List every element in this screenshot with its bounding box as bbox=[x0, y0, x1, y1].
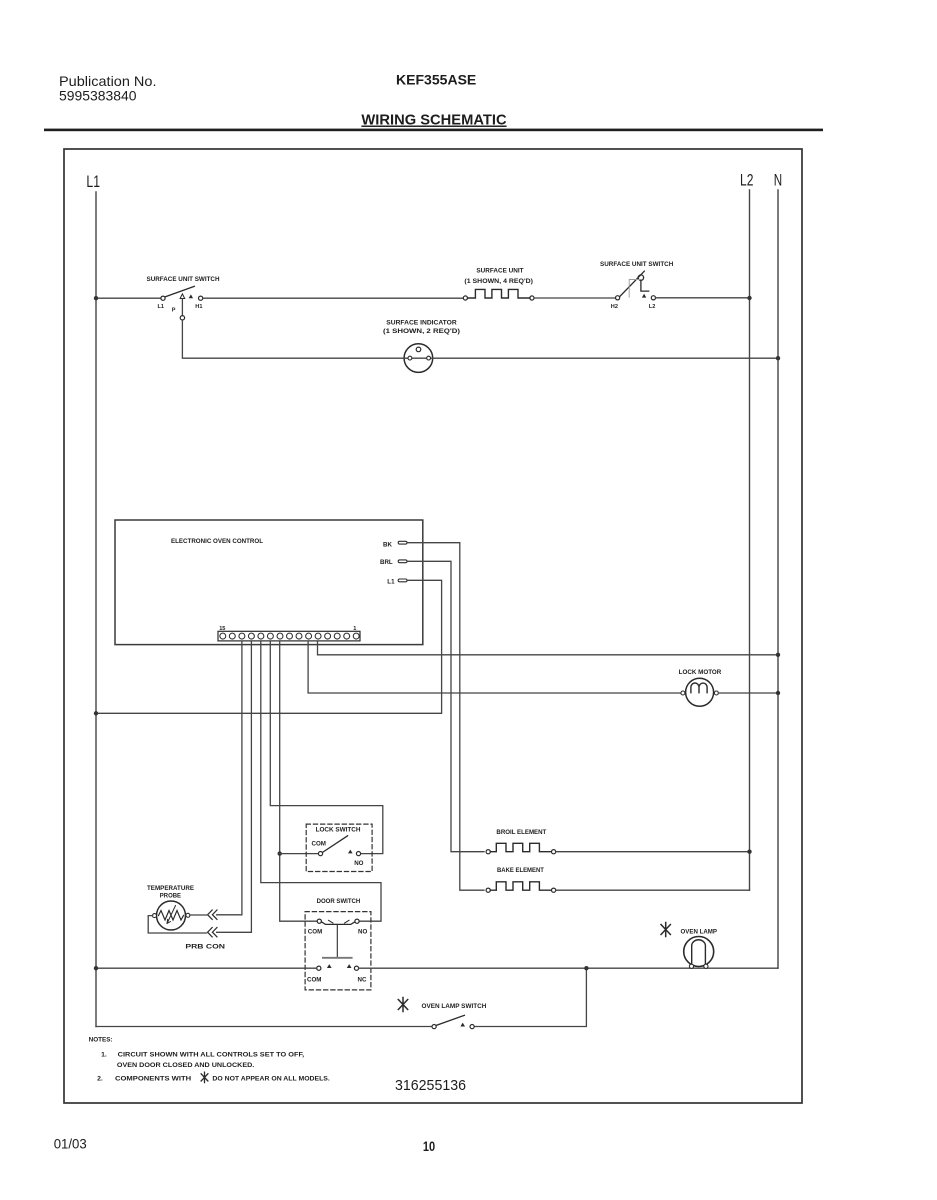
junction dot N/indicator row bbox=[776, 356, 780, 360]
switch SW1 contact H1 bbox=[199, 296, 203, 300]
switch lock arrow bbox=[348, 850, 353, 854]
wire pin13 to probe right lead bbox=[217, 642, 242, 915]
probe terminals bbox=[153, 914, 157, 918]
switch lock NO contact bbox=[356, 852, 360, 856]
svg-text:SURFACE UNIT SWITCH: SURFACE UNIT SWITCH bbox=[600, 261, 674, 268]
switch door upper NO contact bbox=[355, 919, 359, 923]
switch door lower NC contact bbox=[354, 966, 358, 970]
svg-text:1.: 1. bbox=[101, 1051, 107, 1058]
svg-text:WIRING SCHEMATIC: WIRING SCHEMATIC bbox=[361, 113, 507, 129]
junction dot L1 bus / L1 tab wire bbox=[94, 711, 98, 715]
svg-text:CIRCUIT SHOWN WITH ALL CONTROL: CIRCUIT SHOWN WITH ALL CONTROLS SET TO O… bbox=[118, 1051, 305, 1058]
svg-text:P: P bbox=[172, 308, 176, 314]
wire oven lamp switch loop bbox=[96, 968, 586, 1026]
wire P terminal to indicator row bbox=[182, 320, 404, 358]
svg-text:KEF355ASE: KEF355ASE bbox=[396, 72, 476, 88]
wire branch to lock switch COM bbox=[280, 853, 319, 855]
wire neutral bottom bus left segment bbox=[96, 967, 317, 969]
wire probe return lead bbox=[148, 916, 206, 933]
switch door lower COM contact bbox=[317, 966, 321, 970]
svg-text:H2: H2 bbox=[611, 304, 618, 310]
svg-text:PROBE: PROBE bbox=[160, 893, 181, 900]
junction dot N / lock motor bbox=[776, 691, 780, 695]
svg-text:OVEN DOOR CLOSED AND UNLOCKED.: OVEN DOOR CLOSED AND UNLOCKED. bbox=[117, 1062, 255, 1069]
switch SW1 P terminal bbox=[180, 316, 184, 320]
svg-text:L1: L1 bbox=[158, 304, 165, 310]
wire probe right lead to chevron bbox=[190, 914, 207, 916]
connector strip P1 bbox=[218, 631, 360, 641]
svg-text:NOTES:: NOTES: bbox=[89, 1036, 113, 1043]
wire N vertical bus bbox=[777, 190, 779, 968]
wire element to switch SW2 bbox=[534, 297, 616, 299]
svg-text:NO: NO bbox=[354, 860, 363, 867]
wire pin9 to lock COM and door COM bbox=[280, 642, 318, 922]
svg-text:2.: 2. bbox=[97, 1076, 103, 1083]
resistor surface unit element bbox=[468, 289, 531, 298]
switch SW1 contact L1 bbox=[161, 296, 165, 300]
svg-text:COMPONENTS WITH: COMPONENTS WITH bbox=[115, 1076, 191, 1083]
wire bake to L2 bbox=[556, 889, 750, 891]
svg-text:DOOR SWITCH: DOOR SWITCH bbox=[317, 898, 361, 905]
switch SW1 blade bbox=[165, 286, 194, 297]
surface unit element right terminal bbox=[530, 296, 534, 300]
switch oven lamp switch bbox=[432, 1025, 436, 1029]
switch SW2 blade with loop bbox=[620, 271, 645, 296]
svg-text:ELECTRONIC OVEN CONTROL: ELECTRONIC OVEN CONTROL bbox=[171, 538, 263, 545]
wire pin10 to lock switch NO bbox=[270, 642, 383, 854]
svg-text:LOCK SWITCH: LOCK SWITCH bbox=[316, 827, 361, 834]
svg-text:(1 SHOWN, 2 REQ'D): (1 SHOWN, 2 REQ'D) bbox=[383, 328, 460, 335]
svg-text:DO NOT APPEAR ON ALL MODELS.: DO NOT APPEAR ON ALL MODELS. bbox=[212, 1076, 330, 1083]
schematic border frame bbox=[64, 149, 802, 1103]
svg-text:COM: COM bbox=[312, 841, 326, 848]
wire L1 tab to L1 bus bbox=[96, 580, 442, 713]
wire L1 vertical bus bbox=[95, 192, 97, 1027]
svg-text:BAKE ELEMENT: BAKE ELEMENT bbox=[497, 867, 544, 874]
wire BK to bake element bbox=[407, 543, 484, 891]
switch lock blade bbox=[323, 836, 348, 853]
svg-text:N: N bbox=[774, 172, 782, 190]
svg-text:SURFACE UNIT: SURFACE UNIT bbox=[476, 268, 523, 275]
svg-text:SURFACE UNIT SWITCH: SURFACE UNIT SWITCH bbox=[147, 276, 220, 283]
svg-text:(1 SHOWN, 4 REQ'D): (1 SHOWN, 4 REQ'D) bbox=[464, 278, 533, 285]
connector pins bbox=[220, 633, 359, 639]
wire pin12 to probe return lead bbox=[217, 642, 252, 933]
junction dot L2/top row bbox=[747, 296, 751, 300]
connector chevrons PRB CON lower bbox=[208, 928, 217, 937]
svg-text:L2: L2 bbox=[740, 172, 753, 190]
wire H1 to surface unit bbox=[203, 297, 464, 299]
switch door upper COM contact bbox=[317, 919, 321, 923]
lamp oven lamp bbox=[661, 923, 670, 937]
wire P tap down bbox=[181, 299, 183, 316]
svg-text:LOCK MOTOR: LOCK MOTOR bbox=[679, 669, 722, 676]
surface unit element left terminal bbox=[463, 296, 467, 300]
wire BRL to broil element bbox=[407, 561, 484, 851]
svg-text:TEMPERATURE: TEMPERATURE bbox=[147, 885, 194, 892]
header rule bbox=[44, 129, 823, 132]
switch door plunger link bbox=[336, 924, 338, 957]
switch door lower arrows bbox=[327, 964, 352, 968]
junction dot L2 / broil bbox=[747, 850, 751, 854]
wire pin11 to door switch NO bbox=[261, 642, 381, 922]
svg-text:BK: BK bbox=[383, 542, 392, 549]
wire lock motor to N bbox=[718, 692, 778, 694]
svg-text:15: 15 bbox=[219, 626, 225, 632]
switch SW2 latch bar bbox=[629, 280, 640, 298]
svg-text:OVEN LAMP: OVEN LAMP bbox=[681, 929, 718, 936]
wire SW2 to L2 bus bbox=[656, 297, 750, 299]
switch SW1 arrow bbox=[189, 294, 193, 298]
svg-text:H1: H1 bbox=[195, 304, 202, 310]
svg-text:OVEN LAMP SWITCH: OVEN LAMP SWITCH bbox=[422, 1003, 487, 1010]
switch lock COM contact bbox=[318, 852, 322, 856]
svg-text:L2: L2 bbox=[649, 304, 656, 310]
junction dot L1/top row bbox=[94, 296, 98, 300]
svg-text:BRL: BRL bbox=[380, 559, 393, 566]
svg-text:COM: COM bbox=[308, 928, 322, 935]
junction dot L1 / bottom bus bbox=[94, 966, 98, 970]
wire neutral bottom bus right segment bbox=[359, 967, 778, 969]
svg-text:L1: L1 bbox=[387, 579, 395, 586]
wire broil to L2 bbox=[556, 851, 750, 853]
svg-text:5995383840: 5995383840 bbox=[59, 88, 137, 104]
switch SW1 P arrow bbox=[180, 294, 185, 299]
junction dot lock COM branch bbox=[278, 851, 282, 855]
svg-text:01/03: 01/03 bbox=[54, 1136, 87, 1152]
switch lock switch box bbox=[306, 824, 372, 871]
junction dot N / pin5 wire bbox=[776, 653, 780, 657]
wire pin6 to lock motor bbox=[308, 642, 681, 693]
switch door upper blade bbox=[321, 922, 355, 925]
connector chevrons PRB CON upper bbox=[208, 910, 217, 919]
wire L2 vertical bus bbox=[749, 190, 751, 890]
svg-text:NC: NC bbox=[358, 976, 367, 983]
svg-text:BROIL ELEMENT: BROIL ELEMENT bbox=[496, 829, 546, 836]
wire pin5 to N bus bbox=[318, 642, 779, 655]
svg-text:1: 1 bbox=[353, 626, 356, 632]
svg-text:L1: L1 bbox=[86, 173, 100, 191]
lamp switch asterisk bbox=[398, 998, 407, 1012]
note asterisk bbox=[201, 1072, 208, 1082]
op-box electronic oven control U1 bbox=[115, 520, 423, 645]
switch SW2 arrow bbox=[642, 294, 646, 298]
switch SW2 contact L2 bbox=[651, 296, 655, 300]
svg-text:PRB CON: PRB CON bbox=[185, 944, 225, 951]
svg-text:10: 10 bbox=[423, 1139, 435, 1154]
lamp surface indicator bbox=[404, 344, 433, 373]
wire through indicator to N bbox=[404, 357, 778, 359]
switch SW2 contact H2 bbox=[616, 296, 620, 300]
svg-text:SURFACE INDICATOR: SURFACE INDICATOR bbox=[386, 320, 457, 327]
svg-text:COM: COM bbox=[307, 976, 321, 983]
switch door switch box bbox=[305, 912, 371, 990]
junction dot bus / lamp switch loop bbox=[584, 966, 588, 970]
svg-text:NO: NO bbox=[358, 928, 367, 935]
svg-text:316255136: 316255136 bbox=[395, 1077, 466, 1094]
wire top row main L1 to switch bbox=[96, 297, 161, 299]
